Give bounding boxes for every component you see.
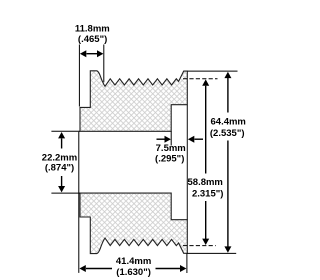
22.2mm dimension arrows bbox=[58, 132, 65, 192]
pulley lower half cross-section (hatched) bbox=[80, 193, 187, 254]
64.4mm top extension line bbox=[187, 70, 237, 72]
svg-text:41.4mm: 41.4mm bbox=[116, 256, 151, 267]
11.8mm dimension arrows bbox=[80, 50, 104, 57]
7.5mm extension line (inner notch edge extended) bbox=[170, 131, 172, 145]
svg-text:(.874"): (.874") bbox=[45, 163, 74, 174]
svg-text:(.465"): (.465") bbox=[78, 34, 107, 45]
svg-text:58.8mm: 58.8mm bbox=[188, 177, 223, 188]
svg-text:(1.630"): (1.630") bbox=[116, 267, 151, 278]
svg-text:64.4mm: 64.4mm bbox=[211, 117, 246, 128]
svg-text:(.295"): (.295") bbox=[155, 154, 184, 165]
64.4mm bottom extension line bbox=[187, 252, 236, 254]
22.2mm lower reference line bbox=[51, 192, 80, 194]
41.4mm dimension arrows bbox=[79, 265, 186, 272]
svg-text:2.315"): 2.315") bbox=[192, 189, 223, 200]
58.8mm bottom dashed line bbox=[183, 245, 216, 247]
svg-text:7.5mm: 7.5mm bbox=[156, 143, 186, 154]
svg-text:(2.535"): (2.535") bbox=[210, 128, 245, 139]
11.8mm extension line left bbox=[78, 45, 80, 107]
11.8mm extension line right bbox=[103, 45, 105, 83]
pulley right edge line through notch bbox=[186, 105, 188, 220]
pulley upper half cross-section (hatched) bbox=[80, 71, 187, 132]
41.4mm extension line left bbox=[78, 132, 80, 273]
58.8mm top dashed line bbox=[183, 78, 218, 80]
58.8mm dimension arrows bbox=[202, 79, 209, 245]
22.2mm upper reference line bbox=[51, 130, 80, 132]
41.4mm extension line right bbox=[186, 253, 188, 273]
svg-text:11.8mm: 11.8mm bbox=[75, 23, 110, 34]
7.5mm dimension arrows bbox=[157, 136, 204, 143]
64.4mm dimension arrows bbox=[224, 72, 231, 253]
